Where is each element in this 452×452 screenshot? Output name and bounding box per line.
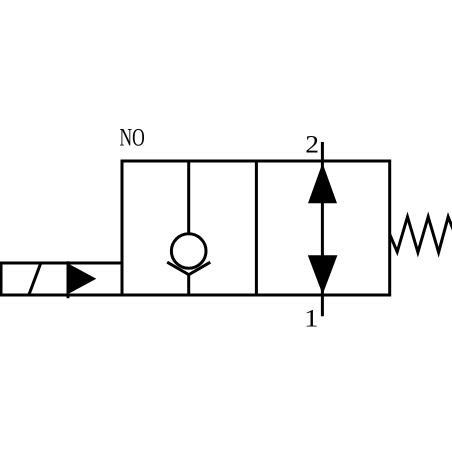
- valve body outline: [122, 161, 390, 295]
- svg-text:2: 2: [305, 131, 319, 159]
- flow arrow down: [308, 255, 338, 294]
- check valve ball (circle): [171, 234, 206, 269]
- svg-text:1: 1: [304, 304, 318, 332]
- solenoid armature line: [67, 261, 70, 298]
- solenoid coil slash: [29, 263, 41, 295]
- port label 2: [305, 131, 319, 159]
- solenoid arrow: [69, 264, 97, 294]
- flow arrow up: [308, 163, 337, 203]
- label NO: [120, 122, 145, 151]
- svg-text:NO: NO: [120, 122, 145, 151]
- spring: [390, 217, 452, 253]
- divider between pilot section and main section: [255, 161, 258, 295]
- wire check-valve stem bottom: [187, 274, 190, 295]
- port label 1: [304, 304, 318, 332]
- check valve seat (V): [167, 262, 210, 275]
- wire check-valve stem top: [187, 161, 190, 234]
- wire port 2 to port 1 stem: [321, 142, 324, 316]
- solenoid box: [1, 263, 122, 295]
